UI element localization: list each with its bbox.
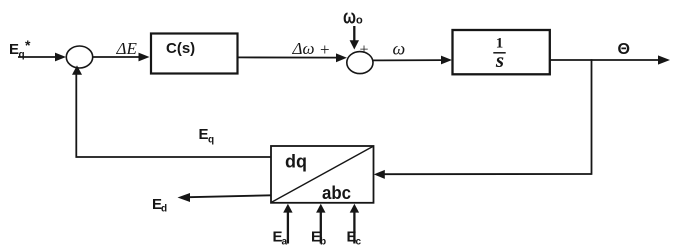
wire feedback into dq/abc block xyxy=(374,170,592,179)
summing junction S2 xyxy=(347,52,373,74)
summing junction S1 xyxy=(66,46,92,68)
node ωo label xyxy=(343,7,363,29)
svg-text:o: o xyxy=(356,15,363,27)
svg-text:abc: abc xyxy=(322,183,351,203)
svg-text:Δω: Δω xyxy=(292,39,315,58)
wire input arrow into summing junction S1 xyxy=(18,53,66,62)
svg-text:c: c xyxy=(356,237,362,248)
svg-text:ΔE: ΔE xyxy=(116,39,138,58)
wire Eq feedback from dq block to S1 xyxy=(72,65,271,157)
svg-text:C(s): C(s) xyxy=(166,40,195,57)
svg-text:*: * xyxy=(25,37,31,53)
node Eq label on feedback wire xyxy=(199,126,215,146)
svg-text:E: E xyxy=(9,41,19,58)
svg-text:Θ: Θ xyxy=(618,41,630,58)
svg-text:a: a xyxy=(282,237,288,248)
node Eq* (reference input label) xyxy=(9,37,31,61)
wire ωo arrow into S2 xyxy=(350,26,359,50)
wire Ed output arrow from dq block xyxy=(178,193,272,202)
wire S1 to C(s) xyxy=(93,53,150,62)
svg-text:ω: ω xyxy=(343,7,356,29)
svg-text:d: d xyxy=(161,204,167,215)
node Ed label xyxy=(152,196,167,215)
node Ec label xyxy=(347,229,362,248)
block C(s) controller xyxy=(151,34,238,74)
svg-text:+: + xyxy=(360,42,369,59)
wire S2 to integrator xyxy=(373,56,452,65)
node Eb label xyxy=(311,229,326,248)
node Ea label xyxy=(273,229,288,248)
svg-text:E: E xyxy=(199,126,209,143)
wire feedback tap down from output xyxy=(591,59,593,175)
svg-text:dq: dq xyxy=(285,152,307,172)
wire integrator output to θ xyxy=(550,55,670,64)
svg-text:q: q xyxy=(208,135,214,146)
svg-text:q: q xyxy=(19,50,25,61)
wire C(s) to summing junction S2 xyxy=(238,53,347,62)
wire Eb input arrow xyxy=(316,204,325,244)
svg-text:ω: ω xyxy=(393,39,406,59)
wire Ea input arrow xyxy=(283,204,292,244)
svg-text:+: + xyxy=(320,40,330,59)
svg-text:b: b xyxy=(320,237,326,248)
wire Ec input arrow xyxy=(350,204,359,244)
svg-text:s: s xyxy=(495,48,504,72)
block 1/s integrator xyxy=(453,30,550,74)
block dq/abc transformation U1 xyxy=(271,146,374,203)
